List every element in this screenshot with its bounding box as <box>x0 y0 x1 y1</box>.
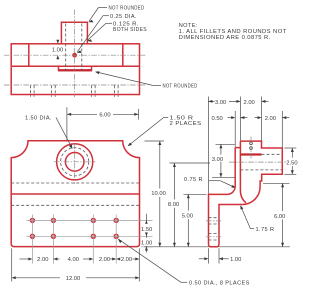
leader 0.25 DIA. (to center dot) <box>103 15 109 17</box>
dimension 2.00 (second row right) <box>255 117 261 119</box>
hole row centerline 1 <box>27 219 153 221</box>
svg-text:BOTH SIDES: BOTH SIDES <box>113 27 147 33</box>
dimension 3.00 (top row) <box>208 100 240 102</box>
notch bottom thick <box>59 69 91 71</box>
hole B2 <box>51 234 55 238</box>
svg-text:0.75 R: 0.75 R <box>184 177 203 183</box>
dimension 6.00 extension line <box>263 182 290 184</box>
dimension 1.00 (side view bottom) <box>207 248 209 263</box>
dimension 2.50 <box>291 148 293 174</box>
svg-text:5.00: 5.00 <box>182 213 193 219</box>
hidden cylinder bottom line <box>240 169 282 171</box>
stem hidden hole lines group 1 <box>209 217 220 219</box>
extension line 5.00 <box>184 193 207 195</box>
svg-text:4.00: 4.00 <box>68 257 79 263</box>
dimension 5.00 <box>187 194 189 247</box>
dimension 6.00 (side view) <box>282 183 284 247</box>
boss hole centerline <box>250 137 252 159</box>
hole A1 <box>30 218 34 222</box>
hidden cylinder top line <box>262 153 283 155</box>
hole center dot (0.25 dia) <box>72 53 77 58</box>
svg-text:DIMENSIONED ARE 0.0875 R.: DIMENSIONED ARE 0.0875 R. <box>179 35 271 41</box>
bore circle 1.50 dia (front view) <box>65 153 84 172</box>
base top edge (front view) <box>11 193 139 195</box>
svg-text:0.50: 0.50 <box>212 116 223 122</box>
dimension 12.00 <box>12 277 60 279</box>
hole A3 <box>91 218 95 222</box>
bottom dims extension lines <box>11 248 13 281</box>
top view middle edge <box>11 65 139 67</box>
boss (top view) <box>61 22 87 44</box>
hidden edge lower <box>11 204 139 206</box>
svg-text:3.00: 3.00 <box>212 157 223 163</box>
extension line top (10.00) <box>145 140 165 142</box>
hole B4 <box>114 234 118 238</box>
svg-text:2.00: 2.00 <box>121 257 132 263</box>
side view outline <box>209 141 283 247</box>
hidden line cylinder left <box>65 24 67 71</box>
svg-text:12.00: 12.00 <box>66 276 81 282</box>
svg-text:8.00: 8.00 <box>168 202 179 208</box>
horizontal centerline upper band <box>4 54 146 56</box>
svg-text:2.00: 2.00 <box>37 257 48 263</box>
hidden hole lines column 1 <box>29 85 31 97</box>
svg-text:3.00: 3.00 <box>215 100 226 106</box>
dimension 3.00 vertical (side view) <box>216 143 235 145</box>
circle centerline horizontal <box>54 161 96 163</box>
top view fillet tangent line right <box>122 44 124 66</box>
vertical centerline through boss <box>74 10 76 71</box>
svg-text:2.50: 2.50 <box>286 160 297 166</box>
hidden line cylinder right <box>81 24 83 71</box>
svg-text:6.00: 6.00 <box>274 214 285 220</box>
svg-text:1.00: 1.00 <box>52 48 63 54</box>
circle centerline vertical <box>74 144 76 185</box>
svg-text:NOT ROUNDED: NOT ROUNDED <box>163 84 198 90</box>
leader NOT ROUNDED (notch) <box>96 72 153 86</box>
dimension 8.00 <box>173 163 175 247</box>
side view top dimension extension lines <box>207 97 209 194</box>
svg-text:0.25 DIA.: 0.25 DIA. <box>110 14 137 20</box>
svg-text:6.00: 6.00 <box>99 112 110 118</box>
svg-text:10.00: 10.00 <box>151 191 166 197</box>
block top step <box>235 147 240 149</box>
leader 1.50 R 2 PLACES <box>164 116 168 118</box>
boss hole circles <box>250 142 253 145</box>
dimension 10.00 <box>159 141 161 247</box>
hole A2 <box>51 218 55 222</box>
hole B1 <box>30 234 34 238</box>
rib rear edge <box>240 141 246 203</box>
svg-text:NOT ROUNDED: NOT ROUNDED <box>109 5 145 11</box>
notch (top view, not-rounded tab) <box>59 66 92 70</box>
boss bottom edge (thick) <box>240 153 261 155</box>
dimension 1.00 (top view) <box>56 40 59 44</box>
svg-text:1.00: 1.00 <box>141 241 152 247</box>
hidden hole lines column 2 <box>51 85 53 97</box>
leader NOT ROUNDED (boss corner) <box>89 8 99 22</box>
svg-text:1.75 R: 1.75 R <box>256 227 275 233</box>
svg-text:1.50 DIA.: 1.50 DIA. <box>25 115 52 121</box>
extension line 8.00 (axis) <box>170 162 211 164</box>
hidden circle 2.50 dia <box>61 148 89 176</box>
dimension 1.50 (right of front view) <box>141 246 153 248</box>
stem hidden hole lines group 2 <box>209 233 220 235</box>
svg-text:NOTE:: NOTE: <box>179 23 198 29</box>
long bottom extension line <box>144 246 290 248</box>
hidden hole lines column 4 <box>113 85 115 97</box>
front view outline <box>11 141 139 247</box>
dimension 2.50 extension lines <box>284 147 296 149</box>
svg-text:1.00: 1.00 <box>230 257 241 263</box>
hole column centerlines <box>31 215 33 264</box>
svg-text:1. ALL FILLETS AND ROUNDS: 1. ALL FILLETS AND ROUNDS NOT <box>179 29 287 35</box>
dimension 1.00 (right of front view) <box>145 247 148 251</box>
top view outline <box>11 44 139 95</box>
svg-text:2.00: 2.00 <box>244 100 255 106</box>
top view fillet tangent line left <box>28 44 30 66</box>
hole B3 <box>91 234 95 238</box>
bottom chain dimension row <box>20 258 32 260</box>
svg-text:2.00: 2.00 <box>99 257 110 263</box>
hole row centerline 2 <box>27 235 153 237</box>
svg-text:2 PLACES: 2 PLACES <box>170 121 202 127</box>
dimension 6.00 (front view top) <box>138 109 140 120</box>
boss outer circle (front view) <box>57 144 93 180</box>
hidden hole lines column 3 <box>90 85 92 97</box>
leader 0.125 R. BOTH SIDES (boss base fillet) <box>106 22 112 24</box>
svg-text:2.00: 2.00 <box>265 116 276 122</box>
hidden edge upper <box>11 182 139 184</box>
svg-text:0.50 DIA., 8 PLACES: 0.50 DIA., 8 PLACES <box>189 281 250 287</box>
cylinder axis centerline <box>229 161 287 163</box>
horizontal centerline lower band <box>4 84 146 86</box>
svg-text:1.50: 1.50 <box>141 227 152 233</box>
leader 0.50 DIA., 8 PLACES <box>118 239 181 282</box>
hole A4 <box>114 218 118 222</box>
leader 1.75 R <box>250 228 254 230</box>
